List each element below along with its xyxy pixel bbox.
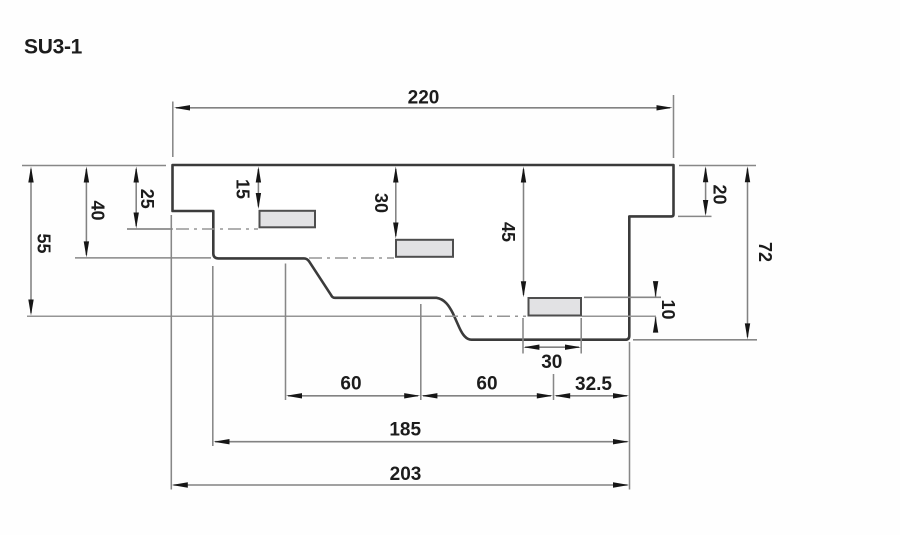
svg-text:60: 60 [340,373,361,394]
dim line 220 [176,107,670,109]
svg-text:220: 220 [408,88,440,109]
svg-text:55: 55 [34,233,54,253]
slot rectangle 2 [396,240,453,257]
slot rectangle 3 [529,298,582,316]
ext: 72 bottom [633,339,757,341]
ext: right edge vertical down [629,342,631,490]
dim line 25 [135,169,137,226]
ext: 25 bottom [127,228,172,230]
arrowheads (black) [28,105,750,488]
dim line 10 upper tail [655,284,657,298]
extension lines (gray) [22,95,757,490]
arrows 40 [84,167,89,183]
arrows 30 mid [393,167,398,183]
dim line 30 mid [395,169,397,236]
arrows 60 second [421,393,437,398]
svg-text:10: 10 [658,299,678,319]
svg-text:20: 20 [710,184,730,204]
dim line 10 lower tail [655,317,657,331]
centerline CL3 long bottom reference [27,315,441,317]
dim line 32.5 [556,395,627,397]
dim line 72 [747,169,749,338]
arrows 220 [174,105,190,110]
ext: slot3 width right [580,318,582,354]
svg-text:25: 25 [137,189,157,209]
arrows 32.5 [554,393,570,398]
svg-text:30: 30 [371,193,391,213]
ext: slot2 center vertical [420,304,422,400]
ext: left top shared (55/40/25) [22,165,166,167]
dim line 60 first [288,395,418,397]
centerline CL2 middle slot [309,257,394,259]
slot rectangle 1 [260,211,316,228]
svg-text:30: 30 [541,352,562,373]
ext: 20 bottom [678,215,712,217]
arrows 72 [745,166,750,182]
profile outline [173,165,674,340]
ext: 10 top [584,296,661,298]
svg-text:32.5: 32.5 [575,374,612,395]
ext: 20/72 top right [679,165,756,167]
dim line slot30 [525,346,579,348]
arrows 45 [521,167,526,183]
svg-text:15: 15 [232,179,252,199]
ext: slot3 width left [522,318,524,354]
dimension lines (gray) [31,108,748,485]
arrows 60 first [286,393,302,398]
ext: 220 left [172,102,174,158]
ext: 220 right [673,95,675,158]
arrows slot30 [523,345,539,350]
arrows 55 [28,167,33,183]
dim line 40 [85,169,87,255]
dim line 203 [174,484,628,486]
dim line 20 [705,169,707,214]
dim line 60 second [423,395,551,397]
dim line 45 [523,169,525,295]
dim line 55 [30,169,32,313]
ext: left edge vertical down (203 left) [170,215,172,490]
arrows 25 [134,167,139,183]
centerline CL1 left slot [27,229,656,316]
svg-text:60: 60 [476,373,497,394]
dim line 185 [215,441,628,443]
ext: 40 bottom [75,257,211,259]
ext: slot1 center vertical [285,264,287,401]
arrows 203 [172,482,188,487]
arrows 185 [214,439,230,444]
ext: slot3 center vertical [553,374,555,400]
svg-text:SU3-1: SU3-1 [24,36,83,59]
svg-text:45: 45 [498,222,518,242]
svg-text:40: 40 [88,200,108,220]
dim line 15 [257,169,259,207]
arrows 20 [703,166,708,182]
arrows 10 (outside) [653,281,658,297]
arrows 15 [256,167,261,183]
svg-text:72: 72 [755,242,775,262]
svg-text:203: 203 [390,464,422,485]
ext: step vertical down (185 left) [212,266,214,446]
svg-text:185: 185 [389,419,421,440]
